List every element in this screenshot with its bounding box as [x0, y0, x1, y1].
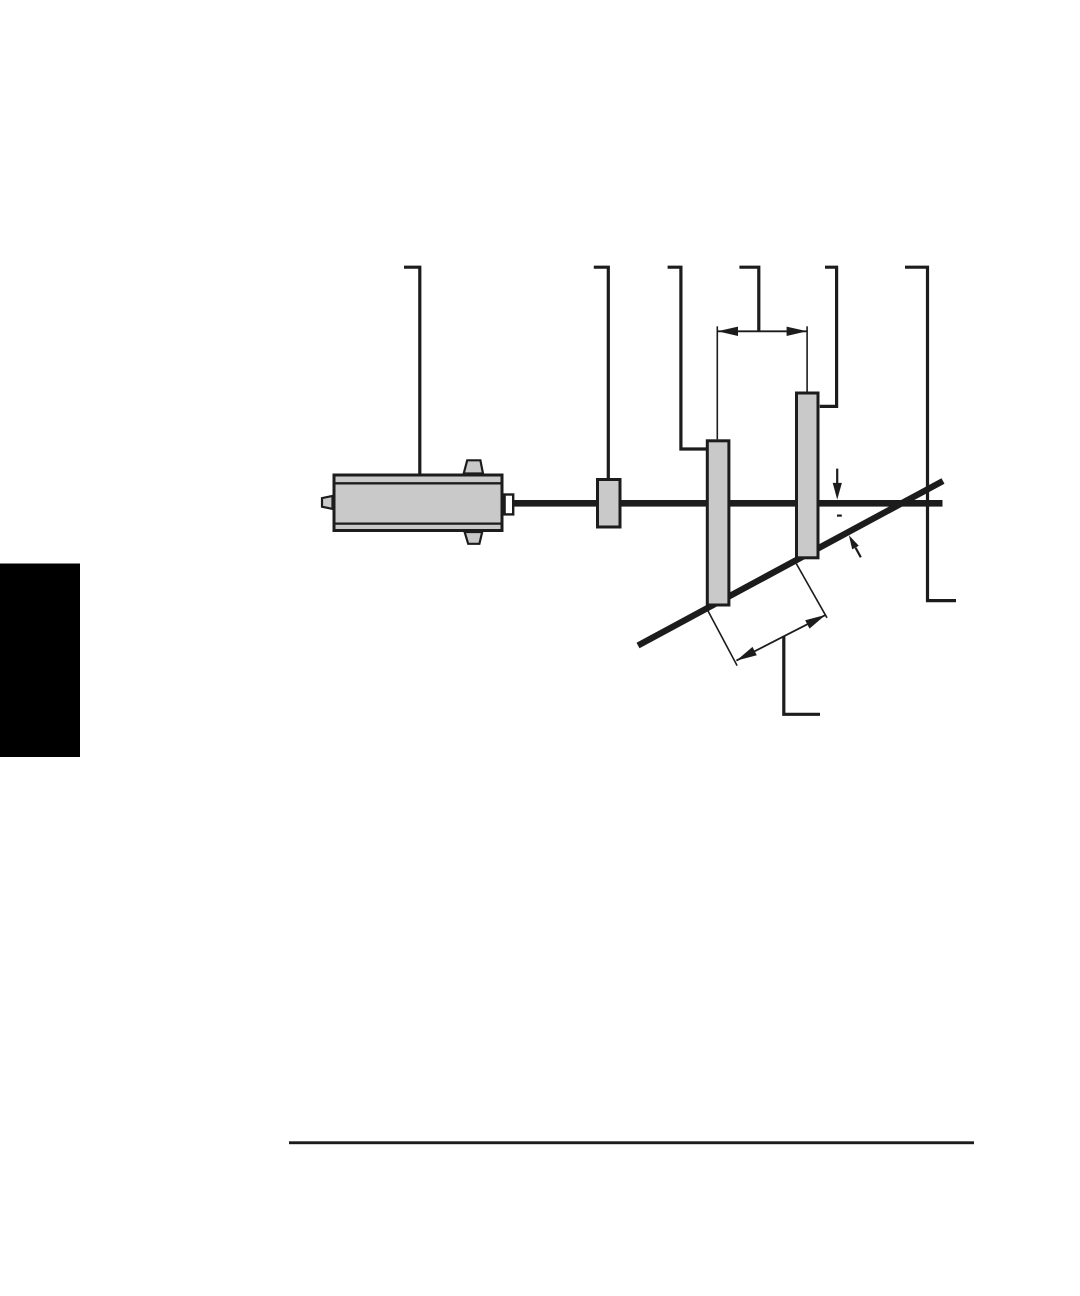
laser head bottom tab [465, 532, 483, 544]
laser beam (horizontal) [513, 500, 943, 507]
beam-height arrow (down) [833, 469, 842, 500]
dimension extension line (bar 1 centre) [716, 326, 718, 439]
leader 4 (separation dimension) [739, 267, 758, 331]
angle arrow (points at surface) [849, 535, 861, 557]
dimension extension line (bar 2 centre) [806, 326, 808, 391]
leader 2 (beam splitter) [594, 267, 609, 479]
leader 3 (optic bar 1) [668, 267, 707, 449]
horizontal dimension line with arrowheads [718, 327, 808, 336]
leader 7 (diagonal dimension) [784, 636, 820, 714]
diagonal dimension line with arrowheads [736, 615, 825, 661]
laser head top tab [464, 460, 483, 473]
small dash mark [837, 515, 842, 517]
diagonal dimension extension line A [707, 609, 737, 665]
leader 5 (optic bar 2) [820, 267, 837, 406]
beam splitter (small block) [598, 480, 621, 528]
footer rule [289, 1141, 974, 1144]
laser output connector [505, 495, 514, 515]
laser head aperture (left) [322, 496, 333, 509]
leader 1 (laser head) [404, 267, 420, 474]
optic bar 2 [797, 393, 819, 558]
chapter tab (black block, left edge) [0, 564, 80, 758]
laser head body [333, 475, 503, 531]
leader 6 (surface bracket) [905, 267, 956, 600]
optic bar 1 [707, 441, 729, 605]
measurement surface (diagonal line) [638, 481, 943, 646]
diagonal dimension extension line B [796, 564, 827, 618]
